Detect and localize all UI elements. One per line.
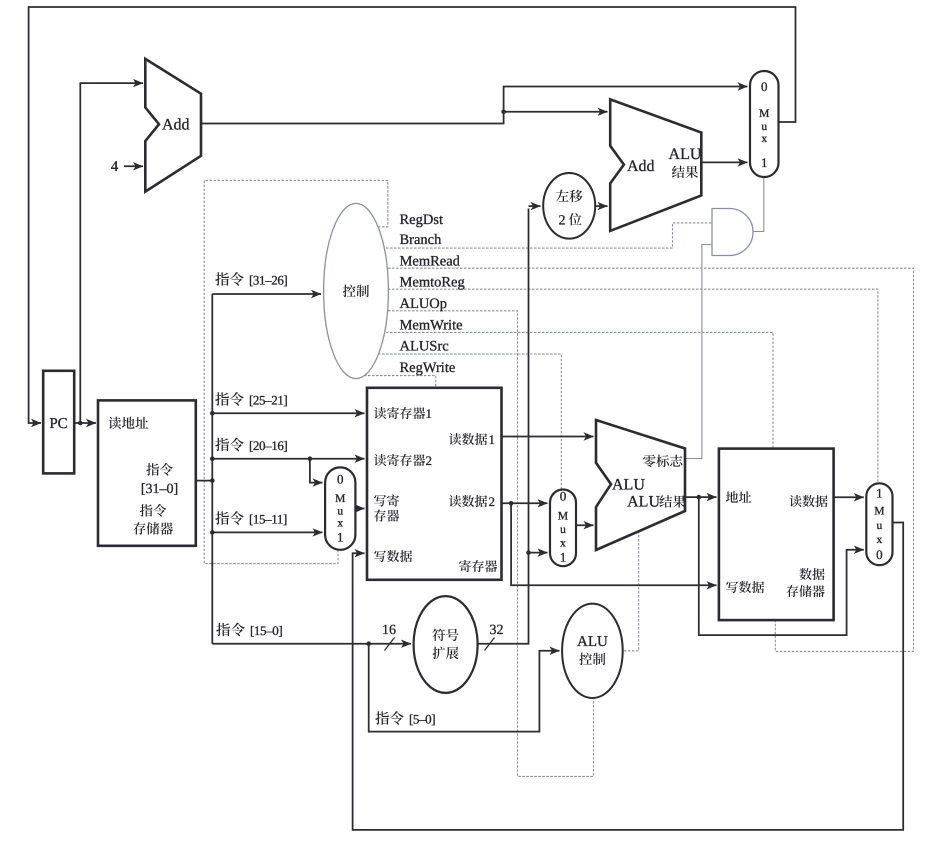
label read address [108, 417, 121, 430]
svg-text:MemRead: MemRead [400, 254, 461, 270]
wire shift-left-2 output to branch Add [595, 205, 607, 207]
registers box [367, 388, 502, 580]
label control [343, 285, 356, 297]
node bus tap instruction[25-21] [210, 411, 215, 416]
shift left 2 oval [543, 173, 595, 239]
svg-text:1: 1 [489, 432, 496, 447]
wire instruction[15-0] to sign extend [212, 643, 411, 645]
svg-text:ALUSrc: ALUSrc [400, 339, 449, 355]
svg-text:u: u [337, 506, 343, 518]
wire PC-update loop: PCSrc mux output around top to PC input [29, 7, 796, 423]
svg-text:1: 1 [761, 155, 768, 170]
wire shift-left-2 input [529, 205, 541, 207]
wire instruction memory output to instruction bus [196, 480, 213, 482]
label sign extend [432, 629, 445, 642]
svg-text:[31–26]: [31–26] [249, 273, 287, 288]
wire ALU result branch around data memory to writeback mux input 0 [699, 497, 864, 635]
wire ALUOp control: oval to ALU-control oval [372, 311, 594, 777]
wire instruction bus vertical [211, 294, 213, 644]
label registers [459, 560, 471, 572]
wire instruction[15-11] to RegDst mux input 1 [212, 531, 322, 533]
mux RegDst [325, 467, 355, 549]
node instruction[20-16] tap [308, 456, 313, 461]
wire sign extend branch to ALUSrc mux input 1 [529, 552, 548, 554]
svg-text:M: M [558, 511, 568, 523]
wire RegWrite control: oval to registers write enable [360, 376, 436, 389]
svg-text:MemtoReg: MemtoReg [400, 275, 465, 291]
labels data memory ports [726, 491, 738, 503]
label instruction [31-26] [215, 272, 229, 285]
node bus tap instruction[20-16] [210, 456, 215, 461]
wire instruction[20-16] to read register 2 [212, 458, 364, 460]
wire MemtoReg control: oval to writeback-mux select [372, 289, 878, 484]
slash tick 32-bit [485, 638, 495, 651]
label instruction [15-0] [216, 623, 230, 636]
adder Add (branch target) [610, 99, 701, 231]
wire ALU result to data memory address [685, 496, 717, 498]
sign extend oval [414, 596, 478, 693]
svg-text:x: x [337, 518, 343, 530]
svg-text:16: 16 [382, 623, 396, 638]
wire RegDst control: oval to RegDst-mux select [204, 180, 388, 563]
svg-text:1: 1 [560, 550, 567, 565]
svg-text:0: 0 [337, 472, 344, 487]
label zero flag [643, 455, 656, 467]
svg-text:Add: Add [627, 158, 655, 175]
svg-text:u: u [560, 524, 566, 536]
svg-text:4: 4 [111, 159, 119, 175]
svg-text:ALUOp: ALUOp [400, 296, 448, 312]
svg-text:2: 2 [559, 214, 566, 229]
wire data memory read data to writeback mux input 1 [834, 496, 864, 498]
node PC+4 junction [501, 110, 506, 115]
wire ALUSrc control: oval to ALUSrc-mux select [366, 354, 561, 491]
node bus tap instruction[31-0] [210, 478, 215, 483]
svg-text:ALU: ALU [627, 494, 660, 511]
svg-text:[15–11]: [15–11] [249, 512, 287, 527]
label instruction [31-0] [146, 463, 159, 476]
wire instruction[5-0] to ALU control [369, 644, 560, 732]
node bus tap instruction[15-11] [210, 530, 215, 535]
wire ALU-control output to ALU operation input [620, 532, 639, 651]
AND gate branch [712, 209, 753, 256]
wire constant 4 into Add [124, 165, 143, 167]
wire instruction[31-26] to control [212, 293, 321, 295]
node sign-extend to ALUSrc tap [526, 550, 531, 555]
wire MemRead control: oval to data memory read port [372, 268, 914, 651]
svg-text:x: x [761, 133, 767, 145]
svg-text:ALU: ALU [669, 146, 702, 163]
ALU control oval [562, 604, 623, 698]
svg-text:ALU: ALU [612, 477, 645, 494]
mux ALUSrc [550, 490, 576, 567]
wire instruction[20-16] branch to RegDst mux input 0 [310, 459, 323, 483]
instruction memory box [98, 400, 196, 545]
wire branch Add result to PCSrc mux input 1 [701, 161, 747, 163]
mux MemtoReg writeback [866, 483, 892, 565]
control unit oval [324, 203, 389, 378]
svg-text:0: 0 [761, 79, 768, 94]
wire Add (PC+4) output to branch Add and PCSrc mux [201, 87, 748, 124]
svg-text:0: 0 [560, 489, 567, 504]
svg-text:[15–0]: [15–0] [250, 623, 282, 638]
label instruction [5-0] [375, 711, 389, 724]
register PC [43, 371, 74, 474]
label ALU result [659, 495, 672, 508]
svg-text:[25–21]: [25–21] [249, 393, 287, 408]
svg-text:PC: PC [49, 416, 67, 432]
label instruction [25-21] [215, 392, 229, 405]
svg-text:u: u [877, 520, 883, 532]
svg-text:RegDst: RegDst [400, 212, 444, 228]
svg-text:M: M [874, 506, 884, 518]
svg-text:32: 32 [490, 623, 504, 638]
label shift left 2 [556, 190, 569, 202]
node read data 2 tap [509, 501, 514, 506]
svg-text:[20–16]: [20–16] [249, 438, 287, 453]
svg-text:0: 0 [876, 547, 883, 562]
wire Zero flag: ALU to AND gate input 2 [683, 245, 712, 459]
svg-text:ALU: ALU [577, 634, 608, 650]
svg-text:M: M [759, 108, 769, 120]
svg-text:Branch: Branch [400, 232, 443, 248]
label instruction [15-11] [215, 511, 229, 524]
wire MemWrite control: oval to data memory write port [370, 332, 773, 449]
wire read data 2 branch to data memory write data [511, 503, 716, 585]
slash tick 16-bit [385, 638, 395, 651]
wire RegDst mux output to write register [355, 508, 364, 510]
svg-text:MemWrite: MemWrite [400, 317, 463, 333]
mux PCSrc [750, 71, 779, 177]
svg-text:1: 1 [876, 486, 883, 501]
node instruction[15-0] tap [366, 641, 371, 646]
node PC output junction [78, 421, 83, 426]
wire PC output to instruction memory read address [74, 422, 96, 424]
svg-text:2: 2 [426, 453, 433, 468]
svg-text:1: 1 [426, 406, 433, 421]
svg-text:x: x [560, 538, 566, 550]
svg-text:x: x [877, 534, 883, 546]
wire ALUSrc mux output to ALU input [576, 524, 594, 526]
wire AND gate output to PCSrc-mux select [753, 176, 764, 232]
wire sign extend output to ALUSrc mux and shift-left-2 [478, 209, 529, 644]
wire Branch control: oval to AND gate input 1 [370, 223, 712, 248]
labels registers ports [374, 407, 386, 419]
data memory box [719, 449, 834, 620]
svg-text:[5–0]: [5–0] [409, 712, 435, 727]
wire writeback mux output to registers write data [353, 523, 904, 830]
node ALU result tap [697, 495, 702, 500]
svg-text:1: 1 [337, 530, 344, 545]
wire PC+4 branch to second Add top input [504, 111, 608, 113]
wire read data 2 to ALUSrc mux input 0 [502, 502, 548, 504]
label instruction memory [140, 504, 153, 517]
svg-text:RegWrite: RegWrite [400, 360, 456, 376]
svg-text:M: M [335, 493, 345, 505]
svg-text:Add: Add [162, 117, 190, 134]
wire PC output up to Add input [80, 83, 143, 423]
svg-text:[31–0]: [31–0] [141, 482, 178, 497]
wire read data 1 to ALU input [502, 436, 594, 438]
svg-text:2: 2 [489, 494, 496, 509]
wire instruction[25-21] to read register 1 [212, 412, 364, 414]
label instruction [20-16] [215, 438, 229, 451]
ALU main [596, 420, 685, 550]
svg-text:u: u [761, 121, 767, 133]
adder Add (PC+4) [145, 59, 201, 192]
